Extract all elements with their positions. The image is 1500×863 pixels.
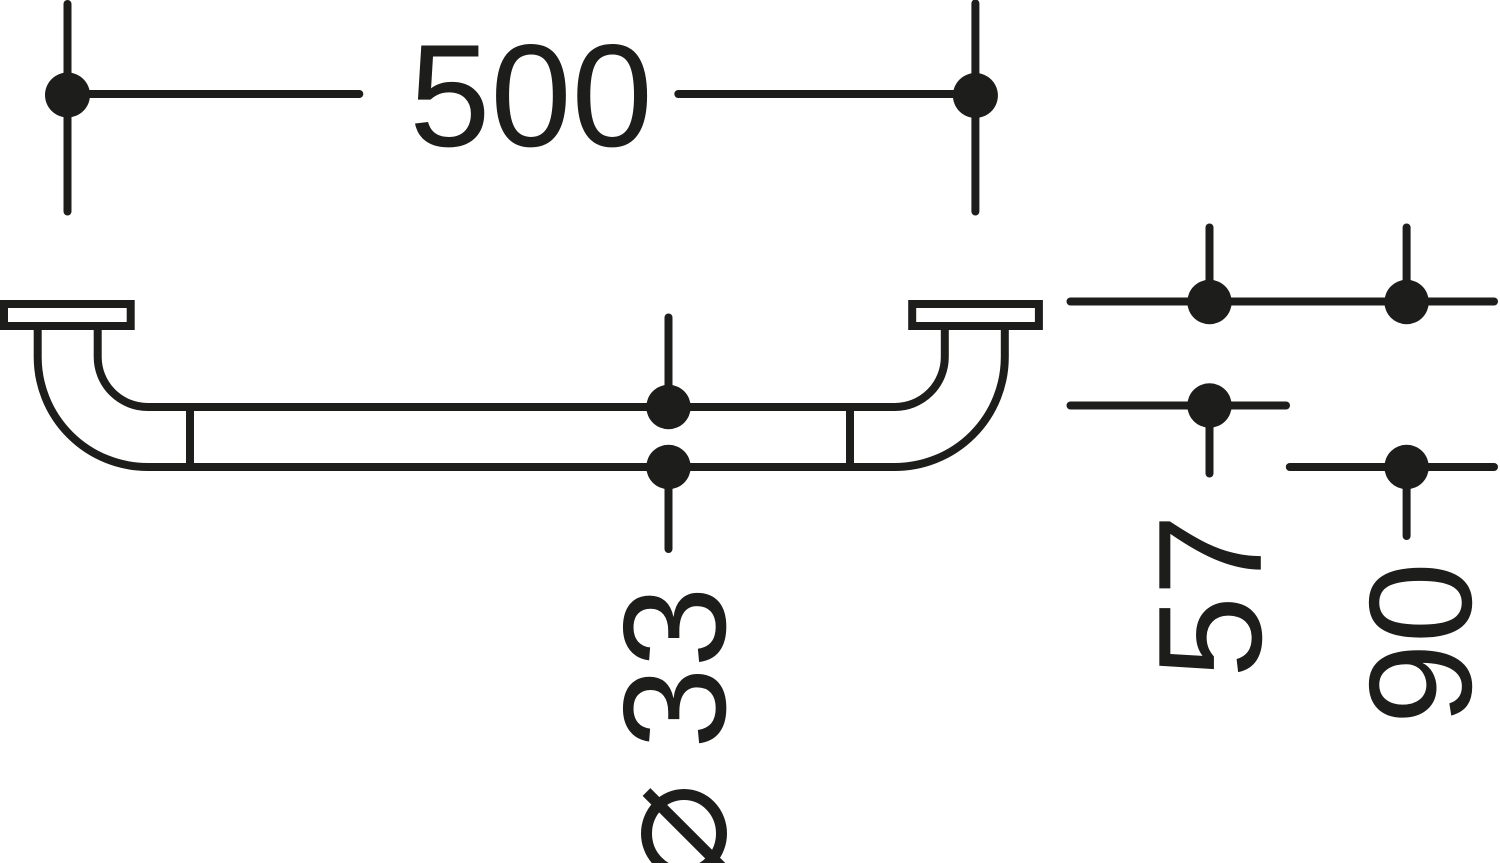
dim 57 lower line bbox=[1071, 402, 1287, 410]
center leader upper segment bbox=[665, 318, 673, 408]
dot bar top edge bbox=[646, 385, 690, 429]
dot 500 left bbox=[45, 73, 90, 118]
dot 57 top bbox=[1187, 280, 1231, 324]
dot 90 top bbox=[1384, 280, 1428, 324]
dim 500 left extension line bbox=[64, 4, 72, 212]
svg-text:57: 57 bbox=[1128, 514, 1293, 678]
dot 90 bottom bbox=[1384, 445, 1428, 489]
dot 500 right bbox=[953, 73, 998, 118]
diameter symbol slash bbox=[647, 792, 724, 863]
svg-text:500: 500 bbox=[409, 14, 653, 177]
stub below dot 90 bbox=[1403, 467, 1411, 536]
svg-text:33: 33 bbox=[593, 586, 756, 748]
right flange plate bbox=[912, 304, 1039, 326]
left flange plate bbox=[4, 304, 131, 326]
dim 57/90 top reference line bbox=[1071, 298, 1495, 306]
stub above dot 57 top bbox=[1206, 228, 1214, 303]
bar upper contour: left neck inner wire, inner bend, rail top edge, right inner bend, right neck inner wire bbox=[98, 327, 945, 407]
dim 500 right extension line bbox=[971, 4, 979, 212]
diameter symbol ring bbox=[647, 795, 722, 863]
dim 500 line right segment bbox=[678, 90, 975, 98]
right weld seam bbox=[846, 407, 854, 467]
dot 57 bottom bbox=[1187, 383, 1231, 427]
center leader lower segment bbox=[665, 467, 673, 549]
dim 500 line left segment bbox=[68, 90, 360, 98]
dim 90 lower line bbox=[1290, 463, 1494, 471]
svg-text:90: 90 bbox=[1339, 562, 1500, 724]
dot bar bottom edge bbox=[646, 445, 690, 489]
stub below dot 57 bbox=[1206, 406, 1214, 474]
bar lower contour: left neck outer wire, outer bend, rail bottom edge, right outer bend, right neck outer wire bbox=[38, 327, 1005, 467]
stub above dot 90 top bbox=[1403, 228, 1411, 303]
left weld seam bbox=[186, 407, 194, 467]
